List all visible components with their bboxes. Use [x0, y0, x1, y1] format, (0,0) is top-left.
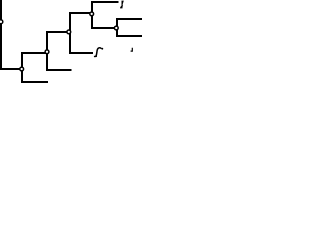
wire: node C3 up branch to right edge	[117, 19, 142, 28]
node C3	[114, 26, 118, 30]
label f (italic glyph near middle wire end)	[95, 48, 101, 57]
wire: node C1 down, right to open end near label f	[70, 32, 92, 53]
wire: node A up, right into node B	[22, 53, 47, 69]
node B	[45, 50, 49, 54]
wire: node B down, right to open end	[47, 52, 71, 70]
label apostrophe mark at far right	[131, 48, 133, 52]
label f: detached dot of curl	[101, 48, 103, 50]
label t (italic prime-like glyph at top right)	[120, 1, 124, 9]
wire: left trunk down and into node A	[1, 0, 22, 69]
node A	[20, 67, 24, 71]
node J0 (half circle at left edge)	[0, 20, 3, 24]
node C2	[90, 12, 94, 16]
wire: node C3 down branch to right edge	[117, 28, 142, 36]
wire: node C2 down, right into node C3	[92, 14, 116, 28]
wire: node C2 up, right to open end near label t	[92, 2, 118, 14]
wire: node A down, right to open end	[22, 69, 47, 82]
wire: node B up, right into node C1	[47, 32, 69, 52]
node C1	[67, 30, 71, 34]
wire: node C1 up, right into node C2	[70, 13, 92, 32]
